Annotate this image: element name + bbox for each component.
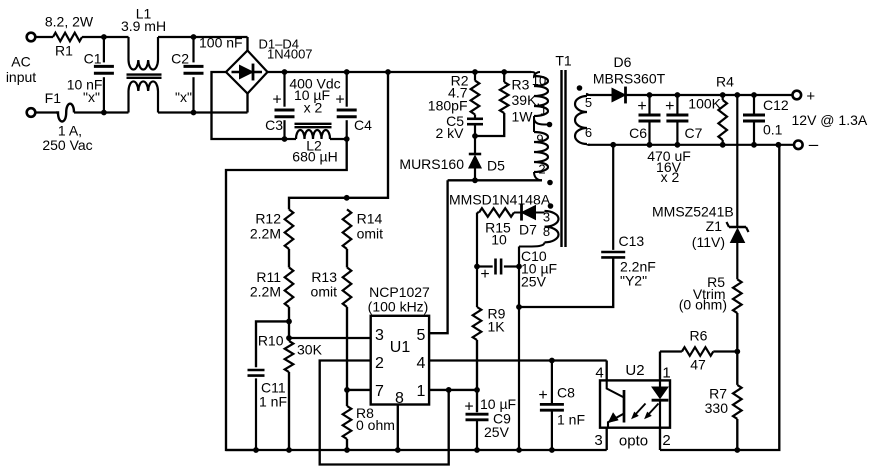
node: C7 top <box>675 92 681 98</box>
T1 aux phase dot <box>548 203 554 209</box>
label 100K <box>688 96 721 112</box>
capacitor C2 <box>184 37 204 113</box>
label R10 <box>258 333 284 349</box>
wire: bottom AC rail terminal to F1 <box>35 111 56 113</box>
node: secondary return / C13 tap <box>610 142 616 148</box>
wire: T1 pin1-pin9 link <box>534 116 549 132</box>
wire: R10 to ground rail <box>288 372 290 450</box>
label 8.2, 2W <box>45 14 94 30</box>
svg-text:C13: C13 <box>619 233 645 249</box>
svg-text:1W: 1W <box>512 109 534 125</box>
wire: top AC rail L1 to bridge <box>158 36 248 38</box>
svg-text:1N4007: 1N4007 <box>267 47 313 62</box>
AC input terminal (bottom) <box>27 108 36 117</box>
svg-text:+: + <box>335 92 344 109</box>
label 100 nF <box>199 35 243 51</box>
svg-text:R1: R1 <box>55 43 73 59</box>
node: C4 top <box>344 69 350 75</box>
wire: opto pin 1 lead <box>659 352 661 381</box>
svg-text:25V: 25V <box>484 424 510 440</box>
resistor R7 <box>733 385 742 419</box>
svg-text:"x": "x" <box>83 89 100 105</box>
svg-text:10: 10 <box>491 232 507 248</box>
label R7 <box>709 386 727 402</box>
label (100 kHz) <box>368 299 429 315</box>
resistor R14 <box>343 209 352 249</box>
node: snubber bottom junction <box>472 133 478 139</box>
node: output - to feedback <box>776 142 782 148</box>
node: aux return ground <box>516 447 522 453</box>
node: C9 ground <box>474 447 480 453</box>
node: R2 top <box>472 69 478 75</box>
capacitor C10 <box>477 259 519 275</box>
label 2 kV <box>435 125 464 141</box>
svg-text:+: + <box>538 387 547 404</box>
svg-text:2: 2 <box>662 432 670 449</box>
svg-text:C3: C3 <box>265 117 283 133</box>
capacitor C11 <box>248 321 290 450</box>
polarity + for C8 <box>538 387 547 404</box>
label U2 <box>625 362 644 379</box>
transformer T1 secondary winding 5-6 <box>575 94 590 145</box>
node: C11 ground <box>253 447 259 453</box>
node: C10 left junction <box>474 264 480 270</box>
T1 pin 5 label <box>585 95 592 110</box>
U2 pin 3 label <box>594 432 602 449</box>
label 2.2M for R12 <box>250 226 281 242</box>
label AC input <box>6 54 36 86</box>
resistor R1 <box>53 33 82 42</box>
capacitor C1 <box>94 37 114 113</box>
wire: R6 right to junction <box>713 350 737 352</box>
polarity + for C6 <box>637 98 646 115</box>
svg-text:AC: AC <box>11 54 30 70</box>
node: C3 top <box>282 69 288 75</box>
capacitor C13 <box>519 145 625 307</box>
capacitor C9 <box>466 414 489 450</box>
svg-text:MURS160: MURS160 <box>399 156 464 172</box>
label 1 nF for C11 <box>259 394 287 410</box>
diode D6 MBRS360T <box>590 87 792 104</box>
svg-text:+: + <box>806 88 815 105</box>
resistor R4 <box>718 95 727 145</box>
svg-text:F1: F1 <box>45 90 62 106</box>
label opto <box>619 433 648 450</box>
T1 pin 6 label <box>585 125 592 140</box>
wire: T1 pin8 to aux return <box>519 242 545 450</box>
optocoupler U2 light arrows <box>631 404 658 420</box>
svg-text:+: + <box>464 399 473 416</box>
label Vtrim <box>693 286 726 302</box>
svg-text:R4: R4 <box>716 74 734 90</box>
svg-text:1: 1 <box>417 383 426 400</box>
U1 pin 2 label <box>375 355 384 372</box>
inductor L1 core <box>127 75 162 78</box>
svg-text:3.9 mH: 3.9 mH <box>121 18 166 34</box>
svg-text:opto: opto <box>619 433 648 450</box>
svg-text:+: + <box>272 92 281 109</box>
label - output <box>809 135 819 154</box>
resistor R9 <box>473 307 482 340</box>
label R12 <box>255 211 281 227</box>
zener Z1 MMSZ5241B <box>727 222 749 279</box>
svg-text:U2: U2 <box>625 362 644 379</box>
capacitor C3 <box>275 72 295 139</box>
svg-text:U1: U1 <box>390 339 411 356</box>
node: zener branch top <box>734 92 740 98</box>
label R5 <box>707 274 725 290</box>
wire: feedback return to output - <box>660 145 779 450</box>
inductor L1 top winding <box>129 37 159 70</box>
label R11 <box>256 269 281 285</box>
diode D7 <box>522 204 545 220</box>
label 680 µH <box>292 149 337 165</box>
label R6 <box>690 328 708 344</box>
wire: U1 pin 3 to divider <box>289 337 371 339</box>
wire: R9 to C9 <box>476 340 478 412</box>
T1 pin 2 label <box>538 162 545 177</box>
node: aux return C13 junction <box>516 304 522 310</box>
inductor L2 core <box>295 124 332 127</box>
wire: U1 pin 1 to VCC <box>429 389 477 391</box>
wire: primary ground rail <box>226 449 607 451</box>
node: C3 bottom <box>282 136 288 142</box>
svg-text:3: 3 <box>594 432 602 449</box>
U1 pin 8 label <box>395 390 404 407</box>
wire: R5 to R6 junction <box>736 313 738 385</box>
node: VCC junction at C9 <box>474 387 480 393</box>
label C11 <box>261 380 286 396</box>
label F1 <box>45 90 62 106</box>
resistor R3 <box>475 72 509 136</box>
T1 pin 8 label <box>543 224 550 239</box>
label D6 <box>614 54 632 70</box>
wire: bottom AC rail F1 to L1 <box>74 111 129 113</box>
svg-text:2 kV: 2 kV <box>435 125 464 141</box>
label omit for R14 <box>357 226 384 242</box>
label T1 <box>555 53 572 69</box>
label 2.2M for R11 <box>250 284 281 300</box>
resistor R2 <box>471 72 480 115</box>
svg-text:9: 9 <box>536 132 543 147</box>
wire: R11 to R10 <box>288 307 290 341</box>
node: C6 bottom <box>647 142 653 148</box>
wire: U1 pin 4 to optocoupler <box>429 359 607 361</box>
node: C4 bottom <box>344 136 350 142</box>
wire: opto pin 2 lead <box>659 428 661 450</box>
transformer T1 primary winding 10-1 <box>534 72 548 116</box>
svg-text:(0 ohm): (0 ohm) <box>679 297 727 313</box>
svg-text:30K: 30K <box>297 342 323 358</box>
label C3 <box>265 117 283 133</box>
svg-text:1: 1 <box>662 365 670 382</box>
node: R6 junction <box>734 349 740 355</box>
svg-text:1: 1 <box>540 103 547 118</box>
wire: bridge bottom vertex to AC rail <box>246 94 248 113</box>
label 10 for R15 <box>491 232 507 248</box>
wire: bottom AC rail L1 to bridge <box>158 111 248 113</box>
label MURS160 <box>399 156 464 172</box>
node: C12 bottom <box>751 142 757 148</box>
label U1 <box>390 339 411 356</box>
optocoupler U2 phototransistor <box>607 380 624 427</box>
label 3.9 mH <box>121 18 166 34</box>
label x 2 output caps <box>661 169 680 185</box>
label "Y2" <box>620 273 647 289</box>
label (11V) <box>692 234 725 250</box>
label R15 <box>485 220 511 236</box>
svg-text:+: + <box>480 266 489 283</box>
optocoupler U2 box <box>600 380 670 427</box>
label C13 <box>619 233 645 249</box>
svg-text:C7: C7 <box>685 125 703 141</box>
resistor R13 <box>343 267 352 307</box>
svg-text:1 nF: 1 nF <box>557 412 585 428</box>
resistor R5 <box>733 279 742 313</box>
T1 pin 1 label <box>540 103 547 118</box>
svg-text:Z1: Z1 <box>706 218 723 234</box>
label C9 <box>493 411 511 427</box>
label 12V @ 1.3A <box>792 112 868 128</box>
node: R14 top <box>344 195 350 201</box>
svg-text:R6: R6 <box>690 328 708 344</box>
label 0 ohm <box>356 417 395 433</box>
label MMSZ5241B <box>652 204 734 220</box>
U1 pin 4 label <box>417 355 426 372</box>
label D1-D4 <box>259 37 299 52</box>
node: R10 ground <box>286 447 292 453</box>
svg-text:5: 5 <box>417 327 426 344</box>
capacitor C5 <box>467 115 483 137</box>
node: R4 bottom <box>720 142 726 148</box>
node: drain switching node <box>472 177 478 183</box>
svg-text:(100 kHz): (100 kHz) <box>368 299 429 315</box>
svg-text:4: 4 <box>595 365 603 382</box>
svg-text:C1: C1 <box>84 51 102 67</box>
node: U1 pin7 junction <box>344 387 350 393</box>
label 400 Vdc <box>289 76 340 92</box>
inductor L1 bottom winding <box>129 81 159 112</box>
resistor R10 <box>285 341 294 372</box>
fuse F1 <box>56 104 74 122</box>
svg-text:"Y2": "Y2" <box>620 273 647 289</box>
wire: top AC rail from terminal to R1 <box>35 36 53 38</box>
node: C11 branch <box>286 319 292 325</box>
svg-text:2: 2 <box>375 355 384 372</box>
wire: U1 pin 5 drain to transformer <box>429 180 448 333</box>
bridge rectifier D1-D4 diamond <box>226 51 268 94</box>
wire: output - rail <box>588 144 794 146</box>
svg-text:2.2M: 2.2M <box>250 284 281 300</box>
label R14 <box>357 211 383 227</box>
label R4 <box>716 74 734 90</box>
T1 pin 9 label <box>536 132 543 147</box>
svg-text:4: 4 <box>417 355 426 372</box>
label 25V for C9 <box>484 424 510 440</box>
node: C1 top junction <box>101 34 107 40</box>
label 1W <box>512 109 534 125</box>
svg-text:R3: R3 <box>512 77 530 93</box>
wire: R14 to R13 <box>346 249 348 267</box>
node: U1 pin3 branch <box>286 335 292 341</box>
U2 pin 4 label <box>595 365 603 382</box>
svg-text:C12: C12 <box>763 97 789 113</box>
wire: +400V rail from bridge to transformer <box>268 72 535 78</box>
label 1N4007 <box>267 47 313 62</box>
svg-text:180pF: 180pF <box>428 98 468 114</box>
label 250 Vac <box>42 137 92 153</box>
label "x" for C1 <box>83 89 100 105</box>
svg-text:MBRS360T: MBRS360T <box>593 71 666 87</box>
capacitor C6 <box>639 95 661 145</box>
label 25V for C10 <box>521 274 547 290</box>
label 30K <box>297 342 323 358</box>
node: C7 bottom <box>675 142 681 148</box>
label 39K, <box>512 92 541 108</box>
label C1 <box>84 51 102 67</box>
svg-text:(11V): (11V) <box>692 234 725 250</box>
label 2.2nF <box>620 259 656 275</box>
wire: R13 down to R8 <box>346 307 348 406</box>
inductor L2 <box>285 130 347 139</box>
svg-text:C2: C2 <box>171 51 189 67</box>
label 330 <box>705 400 729 416</box>
node: C8 ground <box>549 447 555 453</box>
svg-text:100 nF: 100 nF <box>199 35 243 51</box>
polarity + for C9 <box>464 399 473 416</box>
label C12 <box>763 97 789 113</box>
svg-text:R12: R12 <box>255 211 281 227</box>
wire: T1 pin2 to switching node <box>534 172 542 180</box>
wire: DC- rail down-left to primary ground <box>226 139 347 450</box>
resistor R6 <box>682 347 713 356</box>
wire: R8 to ground rail <box>346 439 348 450</box>
wire: R12 to R11 <box>288 249 290 267</box>
label D5 <box>487 158 505 174</box>
svg-text:R10: R10 <box>258 333 284 349</box>
label (0 ohm) <box>679 297 727 313</box>
label R2 <box>451 73 469 89</box>
wire: zener branch vertical <box>736 95 738 226</box>
svg-text:1 nF: 1 nF <box>259 394 287 410</box>
svg-text:100K: 100K <box>688 96 721 112</box>
label "x" for C2 <box>175 89 192 105</box>
label D7 <box>519 222 537 238</box>
label 1K <box>488 319 506 335</box>
transformer T1 core <box>562 70 566 247</box>
T1 primary phase dot (pin 2) <box>547 180 553 186</box>
svg-text:250 Vac: 250 Vac <box>42 137 92 153</box>
U1 pin 3 label <box>375 327 384 344</box>
svg-text:C4: C4 <box>354 117 372 133</box>
U1 pin 5 label <box>417 327 426 344</box>
resistor R15 <box>477 208 522 217</box>
label C10 <box>521 248 547 264</box>
svg-text:680 µH: 680 µH <box>292 149 337 165</box>
svg-text:omit: omit <box>311 284 338 300</box>
svg-text:25V: 25V <box>521 274 547 290</box>
label C8 <box>557 385 575 401</box>
svg-text:2: 2 <box>538 162 545 177</box>
capacitor C8 <box>540 361 564 451</box>
T1 pin 10 label <box>532 73 546 88</box>
label C7 <box>685 125 703 141</box>
svg-text:0.1: 0.1 <box>763 122 783 138</box>
svg-text:"x": "x" <box>175 89 192 105</box>
svg-text:input: input <box>6 69 36 85</box>
label 10 µF <box>294 87 330 103</box>
wire: top AC rail R1 to L1 <box>82 36 129 38</box>
label 10 nF <box>67 77 103 93</box>
node: HV feed tap <box>385 69 391 75</box>
svg-text:12V @ 1.3A: 12V @ 1.3A <box>792 112 868 128</box>
AC input terminal (top) <box>27 33 36 42</box>
label R8 <box>356 405 374 421</box>
bridge rectifier inner diode <box>232 64 263 81</box>
label MMSD1N4148A <box>449 192 551 208</box>
label C2 <box>171 51 189 67</box>
svg-text:x 2: x 2 <box>304 100 323 116</box>
wire: bridge negative output to DC- rail <box>212 72 285 139</box>
svg-text:+: + <box>665 98 674 115</box>
label R3 <box>512 77 530 93</box>
svg-text:D6: D6 <box>614 54 632 70</box>
resistor R12 <box>285 209 294 249</box>
label C4 <box>354 117 372 133</box>
polarity + for C10 <box>480 266 489 283</box>
diode D5 MURS160 <box>469 136 481 180</box>
svg-text:47: 47 <box>690 357 706 373</box>
svg-text:+: + <box>637 98 646 115</box>
svg-text:5: 5 <box>585 95 592 110</box>
wire: bridge top vertex to AC rail <box>246 37 248 51</box>
wire: U1 pin 8 to ground <box>397 405 399 451</box>
U2 pin 2 label <box>662 432 670 449</box>
polarity + for C3 <box>272 92 281 109</box>
svg-text:330: 330 <box>705 400 729 416</box>
wire: VCC column <box>476 213 478 308</box>
node: C6 top <box>647 92 653 98</box>
wire: opto pin 4 lead <box>606 361 608 381</box>
label L1 <box>136 6 152 22</box>
label Z1 <box>706 218 723 234</box>
svg-text:D7: D7 <box>519 222 537 238</box>
svg-text:x 2: x 2 <box>661 169 680 185</box>
polarity + for C7 <box>665 98 674 115</box>
label 16V <box>656 159 682 175</box>
label R13 <box>311 269 337 285</box>
node: C2 bottom junction <box>191 110 197 116</box>
polarity + for C4 <box>335 92 344 109</box>
wire: HV feed down to startup divider <box>289 72 388 209</box>
svg-text:8.2, 2W: 8.2, 2W <box>45 14 94 30</box>
label x 2 <box>304 100 323 116</box>
wire: switching node to transformer pin 2 <box>448 179 542 181</box>
transformer T1 aux winding 3-8 <box>545 211 559 242</box>
T1 secondary phase dot <box>577 85 583 91</box>
label 47 <box>690 357 706 373</box>
label NCP1027 <box>369 284 430 300</box>
output terminal - <box>794 141 803 150</box>
U2 pin 1 label <box>662 365 670 382</box>
svg-text:6: 6 <box>585 125 592 140</box>
wire: R6 left to opto pin1 <box>660 350 682 352</box>
label 10 uF for C10 <box>521 261 557 277</box>
label 4.7 <box>448 85 468 101</box>
capacitor C7 <box>666 95 688 145</box>
U1 pin 1 label <box>417 383 426 400</box>
svg-text:–: – <box>809 135 819 154</box>
